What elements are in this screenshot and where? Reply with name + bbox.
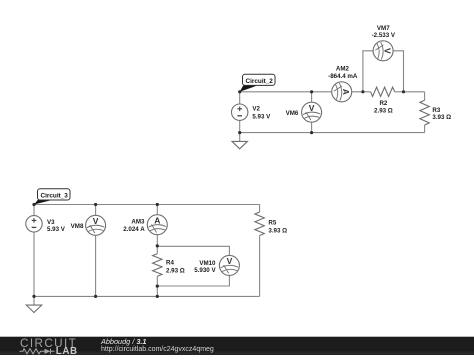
svg-text:R4: R4 — [166, 260, 174, 267]
svg-text:http://circuitlab.com/c24gvxcz: http://circuitlab.com/c24gvxcz4qmeg — [101, 346, 214, 353]
svg-text:5.930 V: 5.930 V — [194, 267, 216, 274]
svg-text:R5: R5 — [268, 220, 276, 227]
svg-text:VM7: VM7 — [377, 25, 390, 32]
svg-text:V3: V3 — [47, 219, 55, 226]
svg-text:VM6: VM6 — [286, 110, 299, 117]
svg-text:R2: R2 — [379, 100, 387, 107]
svg-text:R3: R3 — [432, 107, 440, 114]
svg-text:3.93 Ω: 3.93 Ω — [268, 227, 287, 234]
svg-text:LAB: LAB — [56, 346, 78, 355]
svg-text:-864.4 mA: -864.4 mA — [328, 73, 358, 80]
svg-text:2.93 Ω: 2.93 Ω — [166, 267, 185, 274]
svg-text:AM3: AM3 — [131, 219, 145, 226]
svg-text:VM8: VM8 — [71, 223, 84, 230]
svg-text:2.93 Ω: 2.93 Ω — [374, 108, 393, 115]
svg-text:V2: V2 — [252, 106, 260, 113]
svg-text:Circuit_2: Circuit_2 — [246, 78, 274, 85]
svg-text:Circuit_3: Circuit_3 — [41, 193, 69, 200]
svg-text:-2.533 V: -2.533 V — [372, 32, 396, 39]
svg-text:5.93 V: 5.93 V — [252, 113, 271, 120]
svg-text:AM2: AM2 — [336, 66, 350, 73]
svg-text:5.93 V: 5.93 V — [47, 226, 66, 233]
svg-text:2.024 A: 2.024 A — [123, 226, 145, 233]
svg-text:Abboudg / 3.1: Abboudg / 3.1 — [100, 337, 146, 346]
svg-text:3.93 Ω: 3.93 Ω — [432, 114, 451, 121]
